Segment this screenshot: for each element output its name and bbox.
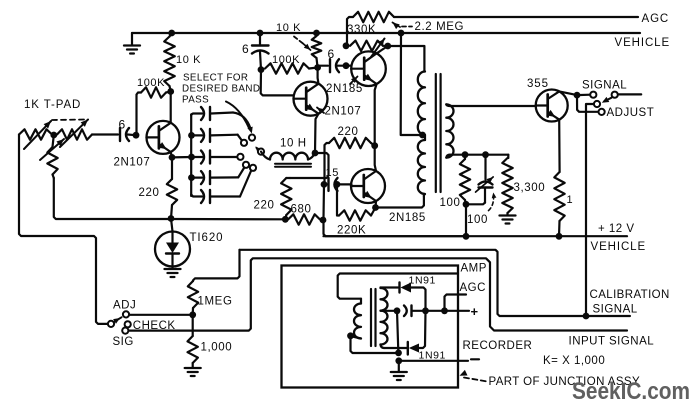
contact row5: [250, 165, 256, 171]
wire Q5 collector: [559, 91, 577, 95]
node junction varcap top: [482, 151, 489, 158]
label 6 (C Q1): [119, 118, 126, 132]
resistor R 2.2MEG (in AGC rail): [347, 12, 394, 46]
svg-text:SIG: SIG: [113, 336, 134, 348]
core lines 10H: [275, 164, 311, 167]
resistor R 220K: [337, 184, 376, 220]
pointer arrow to 10K var: [294, 37, 311, 51]
node junction 220/Q3e/Q4c: [371, 142, 378, 149]
transistor Q1 2N107: [147, 121, 180, 154]
wire emitter rail y219: [169, 218, 285, 221]
node junction 330K-left: [343, 42, 350, 49]
ground symbol (junction box): [391, 361, 407, 380]
wire calibration riser: [586, 104, 593, 314]
resistor R 680: [288, 214, 320, 224]
ground symbol (top-left): [124, 33, 140, 54]
svg-text:SeekIC.com: SeekIC.com: [572, 378, 690, 405]
contact row3: [237, 154, 243, 160]
label 6 (C top-left): [242, 42, 249, 56]
transformer T2 primary: [354, 299, 361, 339]
wire VEHICLE rail: [132, 32, 640, 34]
node junction 680-left: [282, 216, 289, 223]
resistor R 1 (355 emitter): [554, 172, 564, 236]
wire +12V rail: [324, 235, 628, 237]
svg-text:K= X 1,000: K= X 1,000: [543, 355, 605, 367]
junction assembly box: [282, 266, 459, 388]
inductor L 10H: [261, 152, 315, 160]
node junction 100-res top: [462, 151, 469, 158]
contact row4: [243, 162, 249, 168]
resistor R 100K #2 horizontal: [265, 63, 318, 73]
wiper arrow P2: [60, 120, 88, 148]
label VEHICLE (top rail): [615, 37, 671, 49]
node Q2 collector node: [314, 64, 321, 71]
core lines T1: [436, 74, 441, 192]
contact switch pole: [612, 92, 618, 98]
resistor R 220 #2 (vertical): [281, 178, 291, 219]
svg-text:AGC: AGC: [460, 282, 486, 294]
label 10 K (R vertical): [176, 54, 201, 66]
resistor R 330K (horizontal, variable): [350, 41, 388, 51]
label AMP: [461, 263, 487, 275]
wiper ADJ: [113, 317, 121, 323]
svg-text:RECORDER: RECORDER: [463, 340, 533, 352]
wire AMP output: [338, 274, 458, 299]
node junction C6b/330K/Q3base: [343, 62, 350, 69]
wire T2 primary bottom: [351, 337, 399, 354]
wire Q3 collector to 330K node: [377, 46, 388, 53]
capacitor bank C row1: [191, 107, 233, 120]
svg-text:10 H: 10 H: [280, 138, 307, 150]
label SELECT FOR: [183, 73, 248, 84]
svg-text:SELECT FOR: SELECT FOR: [183, 73, 248, 84]
transformer T1 secondary: [446, 104, 453, 157]
label 2N107 (Q1): [114, 157, 151, 169]
label 10 H: [280, 138, 307, 150]
node junction C15 left: [321, 181, 328, 188]
transistor Q5 355: [536, 90, 568, 122]
capacitor bank C row3: [192, 151, 238, 164]
node junction TI620: [168, 215, 175, 222]
label SIG: [113, 336, 134, 348]
svg-text:DESIRED BAND: DESIRED BAND: [182, 84, 260, 95]
wire Q1e to row3: [172, 156, 192, 159]
label 1MEG: [198, 296, 233, 308]
svg-text:100: 100: [467, 214, 488, 226]
svg-text:10 K: 10 K: [176, 54, 201, 66]
svg-text:6: 6: [119, 118, 126, 132]
capacitor C 100 variable: [466, 155, 493, 205]
transformer T2 secondary: [381, 288, 388, 344]
label + 12 V: [598, 223, 635, 235]
contact 10H (selected): [258, 149, 264, 155]
transistor Q4 2N185: [351, 169, 385, 203]
wiper arrow P1: [24, 121, 51, 149]
node junction rail/transformer-tap: [398, 30, 405, 37]
label 680: [291, 204, 312, 216]
label DESIRED BAND: [182, 84, 260, 95]
svg-text:2N185: 2N185: [389, 212, 426, 224]
capacitor C 15: [324, 178, 338, 191]
wire AGC output: [445, 295, 467, 311]
wire INPUT signal: [129, 258, 628, 330]
node junction AGC tap: [441, 307, 448, 314]
wire Q5 emitter: [558, 120, 561, 172]
wire Q1 emitter: [171, 152, 172, 157]
label 2N185 (Q4): [389, 212, 426, 224]
potentiometer P1 (1K T-pad): [19, 129, 52, 139]
capacitor C (junction box): [404, 306, 412, 317]
svg-text:ADJUST: ADJUST: [607, 107, 655, 119]
label RECORDER: [463, 340, 533, 352]
label 10 K (variable): [276, 22, 301, 34]
transformer T1 primary: [418, 72, 425, 197]
wire CALIBRATION signal: [240, 250, 630, 316]
wiper SIGNAL/ADJUST: [602, 97, 612, 103]
label 2N107 (Q2) with arrow: [317, 106, 361, 118]
resistor R 3300: [502, 155, 512, 215]
wire Q2 emitter: [315, 114, 319, 153]
wire T-pad bottom to rail219: [54, 178, 169, 219]
node junction rail/10K: [168, 30, 175, 37]
svg-text:220: 220: [338, 126, 359, 138]
wire Q4 collector: [375, 146, 376, 171]
svg-text:2N185: 2N185: [326, 83, 363, 95]
svg-text:AGC: AGC: [642, 13, 670, 25]
label 2N185 (Q3) with arrow: [326, 77, 363, 96]
label - (recorder): [471, 358, 479, 360]
svg-text:2N107: 2N107: [325, 106, 362, 118]
capacitor C 6 #2 (Q3 base): [318, 59, 346, 72]
node bus row3: [188, 154, 195, 161]
label PASS: [182, 95, 209, 106]
contact ADJ: [123, 311, 129, 317]
label AGC: [642, 13, 670, 25]
contact row2: [241, 140, 247, 146]
resistor R 100: [460, 155, 470, 205]
node junction CT: [394, 307, 401, 314]
wiper arrow var cap: [476, 177, 497, 211]
transistor Q3 2N185: [351, 51, 386, 86]
node junction rail/100: [463, 233, 470, 240]
label SIGNAL (calibration): [593, 304, 638, 316]
label 2.2 MEG: [415, 21, 465, 33]
wire to SIGNAL contact: [577, 94, 590, 97]
contact CHECK: [125, 321, 131, 327]
node junction 680-right: [320, 217, 327, 224]
svg-text:+: +: [471, 304, 479, 319]
ground symbol (1000): [185, 368, 201, 376]
wire 100 node down: [465, 204, 467, 236]
dashed gang line: [52, 119, 86, 122]
label VEHICLE (+12V): [591, 241, 647, 253]
label CHECK: [133, 320, 176, 332]
label 1K T-PAD: [24, 99, 81, 111]
svg-text:PASS: PASS: [182, 95, 209, 106]
resistor R 10K variable (vertical): [312, 36, 322, 68]
svg-text:680: 680: [291, 204, 312, 216]
node junction Q5 collector: [574, 92, 581, 99]
capacitor C 6 (vertical, top): [252, 33, 269, 70]
label 220 (Q3-Q4): [338, 126, 359, 138]
label 100 (resistor): [440, 197, 461, 209]
contact common (cal switch): [108, 321, 114, 327]
svg-text:INPUT SIGNAL: INPUT SIGNAL: [569, 336, 655, 348]
node junction C15 right: [334, 181, 341, 188]
label 220K: [337, 225, 366, 237]
svg-text:1N91: 1N91: [419, 350, 447, 362]
svg-text:3,300: 3,300: [514, 182, 546, 194]
resistor R 100K horizontal: [137, 87, 171, 135]
wire secondary top to 355 base: [450, 105, 536, 107]
label ADJ: [113, 300, 136, 312]
label INPUT SIGNAL: [569, 336, 655, 348]
svg-text:TI620: TI620: [190, 232, 224, 244]
wire CT down: [397, 311, 398, 351]
wire AGC rail + resistor 2.2MEG: [394, 16, 638, 18]
resistor R 10K vertical: [164, 33, 175, 92]
node junction 330K-right/Q3-collector: [384, 43, 391, 50]
svg-text:ADJ: ADJ: [113, 300, 136, 312]
wire calibration left leg: [193, 250, 240, 281]
svg-text:1K T-PAD: 1K T-PAD: [24, 99, 81, 111]
node junction T-pad: [50, 132, 57, 139]
diode D 1N91 (bottom): [381, 311, 426, 355]
label 220 (Q1): [139, 187, 160, 199]
svg-text:SIGNAL: SIGNAL: [593, 304, 638, 316]
wire Q1 collector: [170, 92, 172, 123]
svg-text:6: 6: [242, 42, 249, 56]
switch common contact: [249, 135, 255, 141]
capacitor bank C row2: [192, 129, 242, 142]
transistor Q2 2N107: [294, 82, 328, 116]
svg-text:1N91: 1N91: [409, 275, 437, 287]
wire Q4 emitter to primary bottom: [376, 194, 424, 208]
capacitor bank C row4: [192, 168, 245, 184]
svg-text:CALIBRATION: CALIBRATION: [590, 289, 670, 301]
contact ADJUST: [599, 109, 605, 115]
wire 680 node to +12V rail: [324, 184, 465, 236]
label ADJUST: [607, 107, 655, 119]
svg-text:+ 12 V: + 12 V: [598, 223, 635, 235]
label K= X 1,000: [543, 355, 605, 367]
node bus row4: [188, 174, 195, 181]
svg-text:VEHICLE: VEHICLE: [591, 241, 647, 253]
svg-text:10 K: 10 K: [276, 22, 301, 34]
node junction primary tap: [419, 132, 426, 139]
svg-text:1,000: 1,000: [201, 342, 233, 354]
capacitor C 6 #3 (Q1 base): [92, 128, 136, 141]
wire Q3 emitter down: [375, 84, 377, 146]
node junction T2 primary: [347, 332, 354, 339]
wire ADJ to 1MEG node: [129, 314, 192, 316]
capacitor bank C row5: [191, 171, 251, 203]
wiper arm to 10H contact: [255, 147, 261, 153]
wire center tap: [381, 310, 395, 312]
node junction rail/C6: [257, 30, 264, 37]
node junction cap/+ wire: [422, 307, 429, 314]
wire minus output: [399, 360, 468, 362]
label 1,000: [201, 342, 233, 354]
svg-text:VEHICLE: VEHICLE: [615, 37, 671, 49]
node junction C6/100K/Q2base: [258, 66, 265, 73]
svg-text:330K: 330K: [347, 24, 376, 36]
label 1 (emitter R): [567, 194, 574, 206]
watermark: [572, 378, 690, 405]
node junction C6c/100K-left/Q1base: [133, 132, 140, 139]
svg-text:100: 100: [440, 197, 461, 209]
label 220 (selector): [254, 200, 275, 212]
label 3,300: [514, 182, 546, 194]
contact wiper-target: [594, 101, 600, 107]
svg-text:SIGNAL: SIGNAL: [582, 80, 627, 92]
label SIGNAL (switch): [582, 80, 627, 92]
contact SIGNAL: [590, 92, 596, 98]
svg-text:AMP: AMP: [461, 263, 487, 275]
label 1N91 (bottom): [419, 350, 447, 362]
diode D TI620: [155, 219, 190, 278]
svg-text:6: 6: [328, 47, 335, 61]
node junction ground top: [395, 350, 402, 357]
pointer arrow 2.2 MEG: [393, 23, 413, 30]
wire 330K to transformer primary: [388, 46, 425, 72]
ground symbol (3300): [500, 216, 516, 224]
wiper arrow P3: [40, 139, 64, 160]
label 100 (var cap): [467, 214, 488, 226]
svg-text:1MEG: 1MEG: [198, 296, 233, 308]
node junction 1MEG/1000/ADJ: [189, 311, 196, 318]
svg-text:100K: 100K: [137, 77, 165, 89]
wire tap riser: [401, 33, 421, 135]
label CALIBRATION: [590, 289, 670, 301]
node junction 10H/Q2emitter: [312, 150, 319, 157]
wire capacitor bus: [190, 115, 192, 197]
contact SIG: [122, 328, 128, 334]
label 15 (C): [326, 167, 339, 179]
label 6 (C Q3 base): [328, 47, 335, 61]
resistor R 1000: [188, 315, 198, 368]
resistor R 220 (horizontal): [325, 138, 375, 185]
label 355: [527, 78, 549, 90]
svg-text:2.2 MEG: 2.2 MEG: [415, 21, 465, 33]
node junction 10K/100K/Q1-collector: [167, 88, 174, 95]
svg-text:220K: 220K: [337, 225, 366, 237]
label 1N91 (top): [409, 275, 437, 287]
svg-text:220: 220: [254, 200, 275, 212]
svg-text:2N107: 2N107: [114, 157, 151, 169]
wire + output: [413, 310, 470, 312]
svg-text:100K: 100K: [272, 54, 300, 66]
resistor R 1MEG: [188, 281, 198, 315]
wire Q2 base riser: [261, 70, 294, 96]
svg-text:1: 1: [567, 194, 574, 206]
wire Q3 base: [346, 65, 352, 67]
node junction rail/10Kvar: [313, 30, 320, 37]
pointer PART OF JUNCTION ASSY: [460, 370, 487, 381]
svg-text:CHECK: CHECK: [133, 320, 176, 332]
wire to ADJUST contact: [577, 95, 598, 112]
label 100K (left): [137, 77, 165, 89]
svg-text:220: 220: [139, 187, 160, 199]
core lines T2: [371, 289, 376, 346]
wire wiper arc row1: [226, 102, 253, 134]
potentiometer P2: [57, 129, 92, 139]
node junction 100/varcap: [463, 201, 470, 208]
label TI620: [190, 232, 224, 244]
node junction Q4 emitter: [372, 201, 379, 211]
wire T-pad left down: [19, 135, 108, 324]
label AGC (recorder): [460, 282, 486, 294]
wiper arrow 330K: [371, 39, 385, 58]
resistor R 220 #3 (Q1 emitter): [167, 157, 177, 218]
node junction Q1 emitter: [169, 154, 176, 161]
node junction rail/355R: [556, 233, 563, 240]
label 330K: [347, 24, 376, 36]
node junction minus: [395, 357, 402, 364]
svg-text:355: 355: [527, 78, 549, 90]
node junction calibration: [583, 313, 590, 320]
node bus row2: [188, 132, 195, 139]
label 100K (middle): [272, 54, 300, 66]
wire Q2 collector: [317, 68, 320, 84]
label PART OF JUNCTION ASSY: [489, 376, 641, 388]
wire secondary bottom: [450, 154, 508, 156]
potentiometer P3 (vertical): [47, 135, 57, 178]
wire 10H right to 220 (vert): [290, 153, 329, 178]
wire Q4 base: [337, 183, 352, 185]
label + (recorder): [471, 304, 479, 319]
wire switch pole out: [619, 93, 642, 95]
diode D 1N91 (top): [381, 283, 426, 309]
